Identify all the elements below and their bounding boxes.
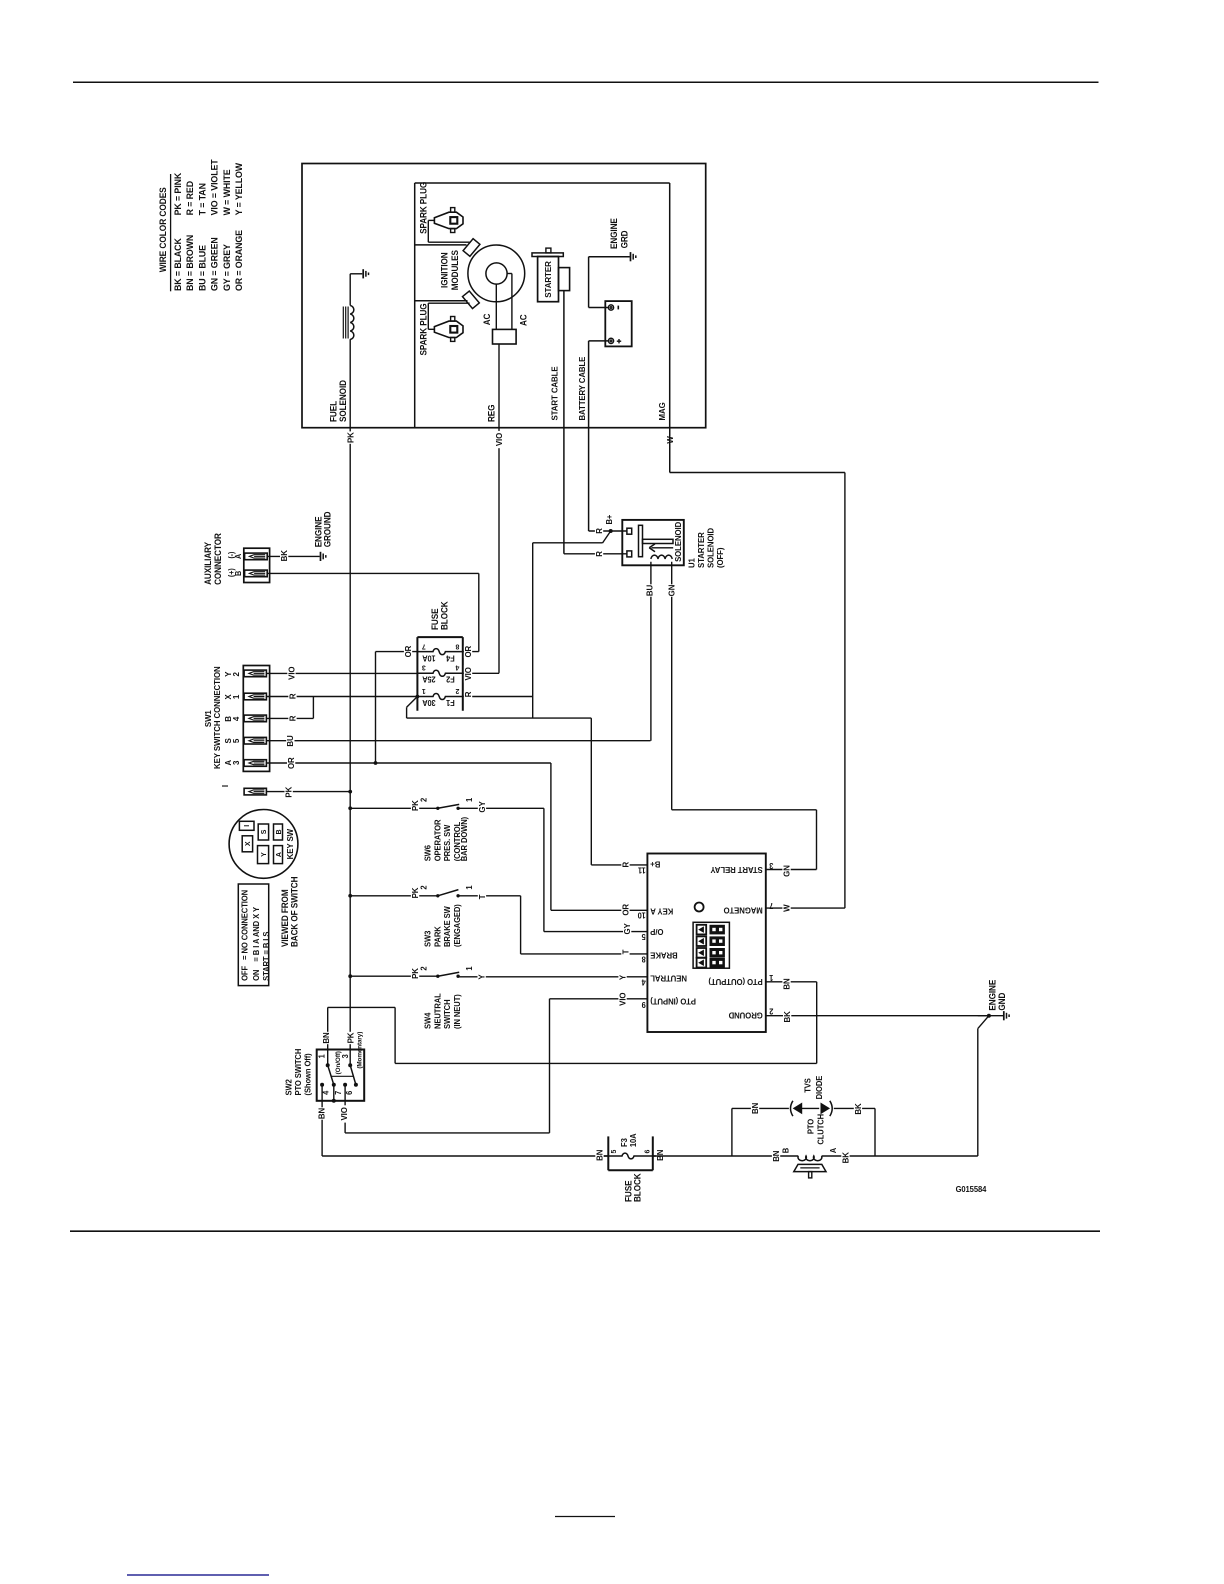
svg-text:VIO: VIO [495, 432, 504, 446]
wire I PK [266, 791, 350, 793]
svg-text:GROUND: GROUND [728, 1010, 762, 1019]
key terminal S [258, 824, 268, 840]
solenoid plunger [639, 525, 643, 556]
svg-text:VIO: VIO [340, 1107, 349, 1121]
fuse F1 right wire R [463, 696, 533, 698]
svg-text:X: X [243, 841, 252, 846]
svg-text:(ENGAGED): (ENGAGED) [453, 904, 462, 947]
svg-text:4: 4 [456, 664, 460, 673]
svg-text:BN: BN [322, 1032, 331, 1043]
svg-text:W = WHITE: W = WHITE [222, 169, 232, 215]
svg-text:PK: PK [346, 432, 355, 443]
svg-text:SOLENOID: SOLENOID [674, 522, 683, 562]
svg-text:TVS: TVS [803, 1078, 812, 1093]
key switch I terminal [244, 788, 266, 795]
ignition modules housing [414, 183, 416, 427]
wire S5 BU [266, 740, 650, 742]
svg-text:5: 5 [609, 1150, 618, 1154]
svg-text:B+: B+ [605, 514, 614, 524]
svg-text:BN: BN [595, 1150, 604, 1161]
svg-text:BK: BK [854, 1103, 863, 1114]
svg-text:W: W [782, 904, 791, 912]
engine grd wire [589, 307, 609, 309]
spark plug 2 (lower) [434, 321, 463, 337]
svg-text:SPARK PLUG: SPARK PLUG [418, 303, 428, 356]
wire SW4 Y [458, 976, 647, 978]
PTO switch SW2 box [317, 1050, 365, 1101]
svg-text:OFF = NO CONNECTION: OFF = NO CONNECTION [240, 890, 249, 981]
svg-text:SWITCH: SWITCH [443, 999, 452, 1029]
svg-text:F4: F4 [445, 654, 454, 663]
svg-text:OR = ORANGE: OR = ORANGE [234, 230, 244, 291]
svg-text:STARTER: STARTER [697, 532, 706, 568]
svg-text:PTO (INPUT): PTO (INPUT) [650, 996, 696, 1005]
svg-text:BN: BN [772, 1150, 781, 1161]
svg-text:4: 4 [321, 1090, 330, 1095]
wire BN pto output [766, 981, 817, 983]
svg-text:I: I [242, 825, 251, 827]
svg-text:GN: GN [667, 585, 676, 597]
svg-text:U1: U1 [687, 558, 696, 568]
svg-text:IGNITION: IGNITION [439, 252, 449, 288]
svg-text:BN = BROWN: BN = BROWN [185, 235, 195, 291]
svg-text:R: R [621, 862, 630, 868]
svg-text:SW2: SW2 [284, 1079, 293, 1096]
starter [538, 257, 559, 302]
svg-text:1: 1 [317, 1054, 326, 1059]
svg-text:25A: 25A [422, 675, 436, 684]
solenoid arrow [652, 547, 674, 549]
svg-text:GRD: GRD [619, 231, 629, 249]
svg-text:4: 4 [231, 716, 241, 721]
svg-text:B: B [274, 830, 283, 835]
svg-text:KEY SW: KEY SW [286, 829, 295, 860]
svg-text:SW6: SW6 [423, 844, 432, 861]
MAG wire (W) [669, 427, 671, 473]
svg-text:VIO: VIO [618, 992, 627, 1006]
svg-text:10A: 10A [422, 654, 436, 663]
svg-text:BU: BU [286, 735, 295, 746]
svg-text:SW3: SW3 [423, 930, 432, 947]
fuse block F3 [607, 1136, 609, 1170]
svg-text:7: 7 [769, 901, 773, 910]
svg-text:SOLENOID: SOLENOID [338, 380, 348, 422]
svg-text:SW1: SW1 [204, 710, 213, 727]
key terminal A [274, 846, 283, 864]
svg-text:G015584: G015584 [956, 1185, 987, 1194]
svg-text:1: 1 [769, 973, 774, 982]
svg-text:SW4: SW4 [423, 1012, 432, 1029]
spark plug 2 wire [428, 328, 434, 330]
svg-text:BN: BN [317, 1108, 326, 1119]
svg-text:OPERATOR: OPERATOR [433, 819, 442, 861]
svg-text:BK: BK [783, 1011, 792, 1022]
svg-text:START CABLE: START CABLE [550, 366, 559, 421]
svg-text:START RELAY: START RELAY [710, 865, 763, 874]
SW2 pin 4 wire BN to fuse F3 [321, 1085, 323, 1156]
svg-text:4: 4 [641, 977, 646, 986]
auxiliary connector [244, 548, 270, 582]
svg-text:2: 2 [419, 885, 428, 890]
svg-text:MAGNETO: MAGNETO [724, 905, 763, 914]
svg-text:1: 1 [422, 687, 426, 696]
key switch circle [229, 810, 298, 879]
fuse F1 pin1 junction [416, 695, 420, 699]
solenoid coil wire BU [650, 562, 652, 741]
svg-text:2: 2 [456, 687, 460, 696]
svg-text:BRAKE: BRAKE [650, 951, 678, 960]
wire PK below engine box [349, 427, 351, 1065]
svg-text:30A: 30A [422, 698, 436, 707]
engine gnd symbol right [1003, 1011, 1005, 1020]
svg-text:5: 5 [231, 738, 241, 743]
svg-text:KEY A: KEY A [650, 907, 673, 916]
fuel solenoid wires [349, 274, 351, 306]
svg-text:1: 1 [465, 885, 474, 890]
svg-text:7: 7 [334, 1091, 343, 1095]
wire VIO below engine box [498, 427, 500, 673]
svg-text:Y: Y [477, 974, 486, 980]
control module box [647, 854, 765, 1033]
svg-text:B: B [234, 570, 243, 576]
svg-text:CONNECTOR: CONNECTOR [213, 533, 223, 585]
svg-text:8: 8 [456, 642, 460, 651]
key switch connector SW1 [243, 666, 269, 772]
svg-text:GY = GREY: GY = GREY [222, 244, 232, 291]
SW2 pin 3 wire PK [347, 1032, 355, 1044]
svg-text:AC: AC [482, 314, 492, 326]
svg-text:B+: B+ [650, 860, 660, 869]
page top rule [73, 81, 1099, 83]
PTO clutch body [794, 1164, 826, 1171]
svg-text:R: R [288, 693, 297, 699]
svg-text:OR: OR [464, 646, 473, 658]
module indicator circle [695, 903, 704, 912]
solenoid pin B+ [627, 528, 632, 534]
svg-text:R: R [595, 551, 604, 557]
key switch legend box [238, 884, 268, 986]
battery cable wire [588, 341, 590, 531]
module pin 11 B+ [621, 861, 629, 868]
svg-text:9: 9 [642, 1000, 646, 1009]
svg-text:2: 2 [419, 797, 428, 802]
svg-text:(Shown Off): (Shown Off) [303, 1053, 312, 1096]
TVS wire labels [751, 1102, 759, 1114]
svg-text:3: 3 [769, 861, 774, 870]
svg-text:10A: 10A [629, 1133, 638, 1147]
svg-text:A: A [274, 851, 283, 857]
svg-text:BAR DOWN): BAR DOWN) [460, 816, 469, 861]
svg-text:GN = GREEN: GN = GREEN [209, 237, 219, 291]
svg-text:PRES. SW: PRES. SW [443, 824, 452, 861]
solenoid coil wire GN [671, 562, 673, 810]
svg-text:BK = BLACK: BK = BLACK [173, 238, 183, 291]
svg-text:STARTER: STARTER [543, 261, 553, 298]
svg-text:R: R [595, 528, 604, 534]
wire B4 R jumper [266, 717, 313, 719]
svg-text:BACK OF SWITCH: BACK OF SWITCH [289, 877, 299, 947]
svg-text:F3: F3 [620, 1138, 629, 1147]
SW2 contacts [326, 1063, 330, 1067]
svg-text:VIO: VIO [464, 667, 473, 681]
svg-text:7: 7 [422, 642, 426, 651]
svg-text:6: 6 [345, 1090, 354, 1095]
svg-text:(IN NEUT): (IN NEUT) [453, 994, 462, 1029]
wire battery cable to B+ contact [589, 530, 611, 532]
svg-text:1: 1 [231, 694, 241, 699]
switch SW3 park brake [350, 895, 438, 897]
svg-text:GY: GY [478, 801, 487, 813]
svg-text:BN: BN [782, 978, 791, 989]
svg-text:3: 3 [231, 760, 241, 765]
svg-text:(Momentary): (Momentary) [356, 1032, 363, 1069]
svg-text:T: T [478, 895, 487, 900]
svg-text:B: B [781, 1148, 790, 1154]
svg-text:MAG: MAG [658, 402, 667, 420]
svg-text:BRAKE SW: BRAKE SW [443, 906, 452, 947]
spark plug 1 (upper) [434, 212, 463, 228]
ignition module 1 (diagonal) [463, 239, 480, 257]
svg-text:5: 5 [641, 932, 646, 941]
R branch wire to module B+ [407, 697, 418, 708]
solenoid B+ node [609, 529, 613, 533]
battery plus wire [589, 340, 609, 342]
svg-text:FUEL: FUEL [328, 401, 338, 422]
svg-text:(OFF): (OFF) [716, 547, 725, 568]
svg-text:2: 2 [419, 966, 428, 971]
svg-text:OR: OR [404, 646, 413, 658]
svg-text:2: 2 [769, 1007, 773, 1016]
svg-text:WIRE COLOR CODES: WIRE COLOR CODES [158, 187, 168, 272]
svg-text:VIO: VIO [287, 666, 296, 680]
svg-text:F2: F2 [446, 675, 455, 684]
REG output wire [498, 344, 500, 427]
svg-text:11: 11 [637, 865, 645, 874]
fuse F4 right wire OR [463, 651, 479, 653]
svg-text:I: I [220, 785, 230, 787]
svg-text:SPARK PLUG: SPARK PLUG [418, 181, 428, 234]
solenoid coil [651, 555, 672, 559]
key terminal Y [258, 846, 269, 864]
svg-text:O/P: O/P [650, 927, 664, 936]
switch SW4 neutral [350, 975, 438, 977]
SW2 blades [328, 1065, 334, 1085]
R wire to solenoid blade [532, 543, 534, 718]
svg-text:PTO: PTO [806, 1119, 815, 1134]
svg-text:ON = B I A AND X Y: ON = B I A AND X Y [252, 906, 261, 981]
starter solenoid U1 box [622, 520, 684, 565]
wire SW3 T [458, 895, 520, 897]
PTO clutch coil [653, 1155, 799, 1157]
fuse F4 10A [417, 649, 462, 655]
engine grd symbol [630, 252, 632, 261]
fuse F1 30A [417, 694, 462, 700]
svg-text:8: 8 [641, 955, 646, 964]
svg-text:BLOCK: BLOCK [439, 600, 449, 630]
wire W from engine to magneto [669, 427, 671, 473]
SW2 pin 7 stub [333, 1085, 335, 1101]
solenoid blade [603, 531, 611, 543]
legend underline [170, 174, 172, 291]
svg-text:VIO = VIOLET: VIO = VIOLET [209, 159, 219, 215]
TVS diode [732, 1107, 789, 1109]
svg-text:NEUTRAL: NEUTRAL [433, 993, 442, 1029]
svg-text:Y = YELLOW: Y = YELLOW [234, 163, 244, 216]
wire Y2 VIO to fuse 3 [266, 672, 417, 674]
svg-text:T: T [621, 950, 630, 955]
svg-text:1: 1 [465, 797, 474, 802]
wire BK ground [766, 1015, 989, 1017]
aux ground symbol [320, 552, 322, 561]
module pin 10 KEY A [551, 909, 648, 911]
svg-text:ENGINE: ENGINE [609, 218, 619, 249]
SW2 pin 1 wire BN [327, 1007, 329, 1065]
svg-text:OR: OR [621, 904, 630, 916]
svg-text:(On/Off): (On/Off) [335, 1051, 342, 1074]
svg-text:MODULES: MODULES [450, 250, 460, 291]
fuse block box [416, 637, 418, 711]
svg-text:AC: AC [518, 314, 528, 326]
svg-text:BATTERY CABLE: BATTERY CABLE [578, 356, 587, 420]
svg-text:GY: GY [623, 923, 632, 935]
module connector graphic [693, 922, 729, 968]
svg-text:Y: Y [259, 852, 268, 857]
AC wire 1 [495, 284, 497, 329]
page bottom rule [70, 1230, 1100, 1232]
svg-text:Y: Y [618, 974, 627, 980]
svg-text:S: S [259, 829, 268, 834]
svg-text:1: 1 [465, 966, 474, 971]
SW2 pin 6 wire VIO [344, 1085, 346, 1133]
svg-text:PK: PK [284, 787, 293, 798]
wire W below engine box [666, 436, 674, 443]
svg-text:BU = BLUE: BU = BLUE [197, 245, 207, 291]
svg-text:PK: PK [346, 1032, 355, 1043]
wire start cable to solenoid R pin [564, 553, 627, 555]
footer blue rule [127, 1574, 269, 1576]
svg-text:F1: F1 [445, 698, 454, 707]
svg-text:DIODE: DIODE [815, 1076, 824, 1100]
svg-text:2: 2 [231, 672, 241, 677]
fuse F2 right wire VIO [463, 672, 499, 674]
svg-text:T = TAN: T = TAN [197, 183, 207, 215]
svg-text:BLOCK: BLOCK [632, 1172, 642, 1202]
svg-text:PTO (OUTPUT): PTO (OUTPUT) [708, 977, 763, 986]
svg-text:R = RED: R = RED [185, 181, 195, 216]
svg-text:10: 10 [638, 911, 646, 920]
svg-text:BU: BU [645, 585, 654, 596]
battery [605, 301, 631, 346]
svg-text:PARK: PARK [433, 926, 442, 947]
ignition module 2 (diagonal) [463, 291, 480, 309]
battery plus label [618, 339, 620, 343]
svg-text:GN: GN [782, 865, 791, 877]
svg-text:OR: OR [287, 757, 296, 769]
fuse F4 left wire OR [376, 651, 418, 653]
svg-text:ENGINE: ENGINE [987, 979, 997, 1010]
svg-text:PK = PINK: PK = PINK [173, 172, 183, 215]
svg-text:3: 3 [422, 664, 426, 673]
engine outline box [302, 164, 706, 428]
flywheel inner circle [486, 263, 507, 284]
svg-text:A: A [234, 553, 243, 559]
svg-text:R: R [288, 716, 297, 722]
aux ground wire BK [267, 555, 320, 557]
fuel solenoid coil [350, 306, 354, 340]
switch SW6 operator presence [350, 807, 438, 809]
start cable wire [563, 291, 565, 554]
svg-text:BK: BK [280, 550, 289, 561]
regulator REG box [493, 329, 517, 344]
key terminal I [239, 821, 254, 830]
svg-text:NEUTRAL: NEUTRAL [650, 973, 687, 982]
svg-text:REG: REG [486, 404, 496, 422]
svg-text:GND: GND [997, 993, 1007, 1011]
svg-text:BN: BN [751, 1103, 760, 1114]
spark plug 1 wire [428, 219, 434, 221]
key terminal X [242, 836, 252, 852]
svg-text:R: R [464, 692, 473, 698]
svg-text:KEY SWITCH CONNECTION: KEY SWITCH CONNECTION [213, 666, 222, 769]
wire SW6 GY [458, 807, 544, 809]
wire X1 R to fuse 1 [266, 696, 417, 698]
footer short rule [555, 1516, 615, 1518]
svg-text:A: A [829, 1148, 838, 1154]
fuel solenoid ground [362, 269, 364, 278]
battery minus label [617, 306, 619, 310]
svg-text:BK: BK [841, 1152, 850, 1163]
key terminal B [274, 824, 283, 840]
flywheel outer circle [468, 245, 525, 302]
svg-text:CLUTCH: CLUTCH [816, 1114, 825, 1145]
AC wire 2 [507, 273, 512, 275]
fuse F2 25A [417, 670, 462, 676]
svg-text:BN: BN [656, 1150, 665, 1161]
wire A3 OR [266, 762, 551, 764]
solenoid pin R [627, 551, 632, 557]
wire GN start relay [672, 809, 817, 811]
svg-text:6: 6 [642, 1150, 651, 1154]
svg-text:GROUND: GROUND [322, 512, 332, 548]
svg-text:START = B I S: START = B I S [262, 932, 271, 981]
svg-text:SOLENOID: SOLENOID [706, 528, 715, 568]
svg-text:PTO SWITCH: PTO SWITCH [294, 1048, 303, 1095]
aux B wire OR [267, 572, 479, 574]
wire B+ node to pin [611, 530, 627, 532]
